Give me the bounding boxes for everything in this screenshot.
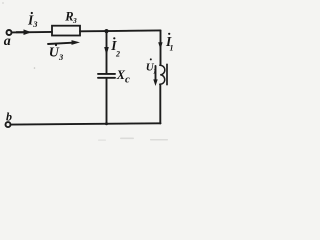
label U1 [146, 58, 157, 75]
scan specks [2, 2, 168, 141]
svg-text:3: 3 [72, 16, 77, 25]
wire resistor to node [80, 30, 107, 32]
current arrow i3 tail stub [16, 31, 24, 33]
current arrow i2 head [104, 47, 109, 56]
wire a to resistor [12, 31, 52, 34]
voltage arrow U1 head [153, 79, 157, 86]
label U3 [49, 44, 64, 62]
inductor winding [160, 65, 165, 84]
right branch wire upper [160, 30, 162, 64]
paper background [0, 0, 179, 142]
voltage arrow U3 head [72, 40, 81, 45]
svg-text:3: 3 [32, 19, 38, 29]
middle branch wire lower [106, 79, 108, 124]
svg-text:a: a [4, 34, 11, 49]
label R3 [64, 9, 77, 25]
current arrow i1 head [158, 42, 162, 49]
capacitor xc bottom plate [98, 77, 115, 79]
svg-text:2: 2 [115, 50, 120, 59]
voltage arrow U3 shaft [48, 43, 75, 44]
svg-text:c: c [125, 73, 130, 85]
label xc [116, 68, 130, 85]
bottom junction dot [105, 122, 108, 125]
svg-text:1: 1 [170, 44, 174, 53]
svg-text:3: 3 [58, 52, 64, 62]
right branch wire lower [159, 84, 161, 123]
current arrow i3 head [24, 29, 32, 35]
voltage arrow U1 shaft [155, 66, 157, 80]
wire node to top-right corner [107, 29, 161, 32]
svg-text:1: 1 [153, 68, 157, 76]
capacitor xc top plate [98, 73, 115, 75]
node junction dot [104, 29, 108, 33]
bottom wire [11, 123, 161, 124]
inductor core bar [166, 64, 168, 84]
label I2 [110, 37, 120, 58]
label I3 [27, 12, 38, 29]
label I1 [165, 33, 174, 53]
terminal b [6, 122, 11, 127]
middle branch wire upper [106, 31, 108, 73]
svg-text:b: b [6, 109, 12, 123]
terminal a [7, 30, 12, 35]
resistor R3 [52, 26, 80, 36]
